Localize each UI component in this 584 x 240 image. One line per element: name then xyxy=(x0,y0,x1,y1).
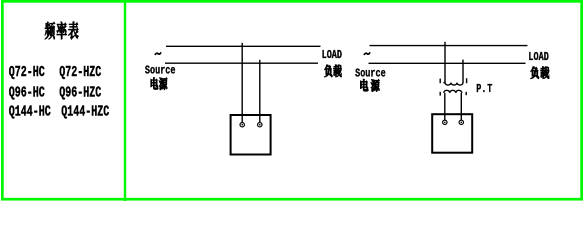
svg-text:T: T xyxy=(487,83,492,97)
svg-text:Q96-HZC: Q96-HZC xyxy=(59,85,101,101)
svg-text:LOAD: LOAD xyxy=(528,51,548,65)
svg-text:P.: P. xyxy=(476,83,486,97)
svg-text:Source: Source xyxy=(355,67,386,81)
svg-text:Q144-HC: Q144-HC xyxy=(9,104,51,120)
svg-text:Source: Source xyxy=(145,64,176,78)
svg-text:LOAD: LOAD xyxy=(322,49,342,63)
svg-text:Q72-HZC: Q72-HZC xyxy=(59,65,101,81)
svg-text:Q96-HC: Q96-HC xyxy=(9,85,45,101)
svg-text:Q72-HC: Q72-HC xyxy=(9,65,45,81)
svg-text:Q144-HZC: Q144-HZC xyxy=(61,104,109,120)
